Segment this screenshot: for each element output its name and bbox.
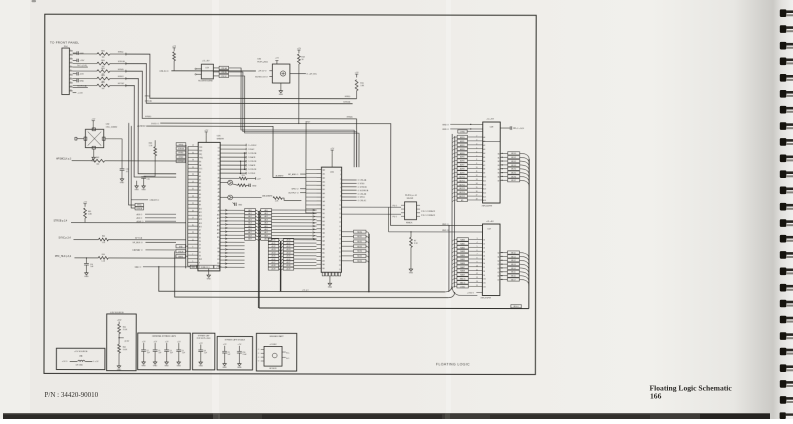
svg-text:AD0: AD0: [265, 209, 268, 212]
U28 inner pin names: [483, 136, 499, 202]
wire DAC branch down to bus: [159, 267, 445, 292]
svg-text:1: 1: [70, 49, 71, 51]
svg-text:12: 12: [339, 213, 341, 215]
svg-text:STROB: STROB: [145, 101, 153, 103]
wire STROB run: [126, 64, 353, 104]
U26 inner pin names: [199, 147, 221, 269]
P64 pin net -15V: [73, 72, 85, 76]
svg-text:ADR1: ADR1: [460, 140, 465, 143]
svg-text:PU O: PU O: [393, 205, 398, 207]
svg-text:100: 100: [96, 164, 99, 166]
svg-text:O DHC: O DHC: [248, 149, 255, 151]
svg-text:D3: D3: [218, 159, 220, 161]
svg-text:15: 15: [192, 225, 194, 227]
svg-text:A.U6: A.U6: [287, 258, 291, 261]
svg-text:A.U4: A.U4: [272, 251, 276, 254]
U26 upper right control nets: [220, 144, 257, 175]
svg-text:EX: EX: [217, 259, 219, 261]
resistor R12 and cap to GND: [233, 184, 257, 188]
svg-text:D3: D3: [483, 251, 485, 253]
wire FPWD run: [126, 71, 357, 167]
svg-text:A.U1: A.U1: [287, 242, 291, 245]
svg-text:MDX6: MDX6: [511, 176, 516, 178]
net GND row with resistor R7: [389, 230, 483, 233]
harness curve into P2: [452, 287, 477, 296]
svg-text:MDL.0: MDL.0: [514, 306, 519, 308]
svg-text:A.U5: A.U5: [272, 255, 276, 258]
svg-text:13: 13: [192, 232, 194, 234]
svg-text:13: 13: [339, 217, 341, 219]
svg-text:AD7: AD7: [248, 231, 251, 234]
svg-text:MAD4: MAD4: [460, 254, 465, 257]
svg-text:7: 7: [192, 254, 193, 256]
svg-text:+CL p.1: +CL p.1: [302, 290, 309, 292]
U31 left feed stubs: [306, 169, 317, 212]
svg-text:CRDHT O: CRDHT O: [150, 200, 160, 202]
svg-text:B7: B7: [498, 180, 500, 182]
svg-text:BLT/B LOG O: BLT/B LOG O: [255, 76, 268, 78]
wire BHLD run to rear connector: [160, 123, 391, 225]
svg-text:MAD5: MAD5: [460, 258, 465, 261]
svg-text:ADR8: ADR8: [460, 167, 465, 170]
svg-text:O DAC8: O DAC8: [248, 156, 256, 159]
svg-text:B6: B6: [498, 177, 500, 179]
svg-text:+15V: +15V: [79, 60, 84, 62]
U26 lower boxed nets GND CRL2E WMBL: [176, 245, 188, 259]
resistor pack RP1: [401, 202, 420, 224]
svg-text:.1uF: .1uF: [182, 353, 185, 355]
svg-text:A.U3: A.U3: [287, 248, 291, 251]
svg-text:D7: D7: [483, 267, 485, 269]
svg-text:AD0: AD0: [248, 209, 251, 212]
svg-text:ADR14: ADR14: [459, 191, 465, 194]
svg-text:BS: BS: [217, 248, 219, 250]
svg-text:RPACK: RPACK: [406, 221, 413, 224]
net BP_AND to U31: [276, 173, 307, 178]
svg-text:D1: D1: [483, 244, 485, 246]
svg-text:E: E: [199, 262, 200, 264]
svg-text:166: 166: [650, 392, 662, 401]
key source box: [56, 348, 105, 369]
svg-text:MDL2: MDL2: [511, 260, 516, 262]
svg-text:FPWD: FPWD: [118, 69, 124, 71]
net BHLD to U27: [391, 224, 483, 226]
U30 output net +5F_R/C: [290, 74, 318, 76]
svg-text:MAD1: MAD1: [460, 242, 465, 245]
svg-text:11: 11: [70, 89, 72, 91]
svg-text:GND: GND: [177, 365, 182, 367]
paper left margin: [0, 0, 30, 419]
svg-text:D2: D2: [199, 248, 201, 250]
svg-text:GND: GND: [222, 367, 227, 369]
U31 left feed bus: [305, 123, 307, 213]
svg-text:GND: GND: [84, 276, 89, 278]
nets N.C. HDAC8 from RP1: [421, 210, 435, 217]
svg-text:AD4: AD4: [248, 222, 251, 225]
power to U26: [204, 130, 208, 143]
svg-text:MDX0: MDX0: [511, 153, 516, 155]
svg-text:FPTST: FPTST: [178, 161, 183, 163]
svg-text:FPWD: FPWD: [178, 153, 184, 155]
svg-text:+1.5V: +1.5V: [77, 92, 83, 94]
wire FPRD run: [126, 54, 357, 99]
svg-text:10: 10: [339, 204, 341, 206]
svg-text:O CRL2K: O CRL2K: [248, 161, 257, 163]
wire STROB long: [71, 221, 186, 223]
svg-text:A.U7: A.U7: [272, 261, 276, 264]
P64 pin net N.CH (5.A): [73, 85, 88, 88]
svg-text:68B09E: 68B09E: [217, 138, 225, 140]
svg-text:D5: D5: [218, 166, 220, 168]
svg-text:MAD2: MAD2: [460, 246, 465, 249]
U26 lower right pin wires: [220, 210, 245, 267]
net DGND boxed: [458, 130, 483, 134]
svg-text:ADR6: ADR6: [460, 160, 465, 163]
svg-text:D2: D2: [483, 247, 485, 249]
svg-text:ADR13: ADR13: [459, 187, 465, 190]
svg-text:37: 37: [192, 145, 194, 147]
svg-text:STROB p.3,4: STROB p.3,4: [54, 221, 68, 223]
svg-text:1B9: 1B9: [322, 205, 325, 207]
svg-text:340-348: 340-348: [407, 198, 414, 200]
svg-text:U27: U27: [488, 229, 491, 231]
nets CRL3A CRL3B CRL3C from U29: [213, 66, 359, 167]
svg-text:O CRL2K: O CRL2K: [248, 169, 257, 171]
svg-text:17: 17: [476, 195, 478, 197]
svg-text:MDX2: MDX2: [511, 161, 516, 163]
svg-text:O CRL8: O CRL8: [248, 173, 256, 175]
svg-text:AD7: AD7: [264, 231, 267, 234]
P64 pin net +1.5V: [73, 92, 84, 94]
svg-text:C10: C10: [242, 352, 245, 354]
resistor R38 with cap to ground: [141, 140, 156, 191]
svg-text:23: 23: [339, 260, 341, 262]
svg-text:74HC374PW: 74HC374PW: [480, 298, 491, 300]
svg-text:AD6: AD6: [248, 228, 251, 231]
svg-text:O +5VDC: O +5VDC: [248, 145, 257, 147]
svg-text:SPIO O: SPIO O: [292, 189, 299, 191]
svg-text:AD9: AD9: [248, 238, 251, 241]
bypass capacitor C8: [198, 343, 207, 368]
svg-text:Q2: Q2: [497, 260, 499, 262]
svg-text:21: 21: [339, 252, 341, 254]
svg-text:14: 14: [476, 183, 478, 185]
svg-text:ALRESV: ALRESV: [137, 125, 146, 128]
svg-text:DAC(GATE): DAC(GATE): [262, 195, 273, 198]
svg-text:O CRL4B: O CRL4B: [358, 194, 367, 196]
P64 pin net +15V: [73, 59, 85, 63]
svg-text:DVLD O: DVLD O: [151, 123, 159, 125]
svg-text:19: 19: [192, 210, 194, 212]
buffer U28: [483, 119, 501, 203]
svg-text:MDL3: MDL3: [511, 264, 516, 266]
svg-text:4B5: 4B5: [322, 229, 325, 231]
svg-text:OUTPUT O: OUTPUT O: [288, 192, 299, 194]
svg-text:MDX7: MDX7: [511, 180, 516, 182]
svg-text:C8: C8: [204, 350, 206, 352]
svg-text:MDX2: MDX2: [357, 241, 362, 243]
unused part box: [256, 333, 296, 371]
svg-text:R42: R42: [96, 157, 99, 159]
U26 left pin numbers: [192, 145, 194, 263]
svg-text:MAD3: MAD3: [460, 250, 465, 253]
svg-text:B0: B0: [498, 153, 500, 155]
capacitor C16: [120, 139, 129, 185]
svg-text:D5: D5: [483, 259, 485, 261]
capacitor to ground under Q2: [233, 202, 243, 206]
svg-text:A.U0: A.U0: [272, 239, 276, 242]
svg-text:10: 10: [476, 167, 478, 169]
svg-text:Q7: Q7: [497, 280, 499, 282]
svg-text:AD4: AD4: [264, 222, 267, 225]
svg-text:BS: BS: [199, 161, 201, 163]
wire DVLD drop: [129, 123, 136, 205]
svg-text:14: 14: [476, 281, 478, 283]
svg-text:6: 6: [70, 69, 71, 71]
svg-text:CRL3A: CRL3A: [221, 67, 228, 70]
right harness vertical: [528, 159, 530, 308]
bypass caps with DAC8 box: [217, 336, 252, 369]
svg-text:.1uF: .1uF: [158, 352, 161, 354]
svg-text:D1: D1: [199, 252, 201, 254]
svg-text:A.U9: A.U9: [272, 267, 276, 270]
svg-text:A15 O: A15 O: [137, 217, 143, 220]
svg-text:O +CV: O +CV: [93, 361, 99, 363]
svg-text:MAD9: MAD9: [460, 274, 465, 277]
svg-text:.1uF: .1uF: [147, 352, 150, 354]
svg-text:MAD11: MAD11: [460, 281, 466, 284]
wire FPTST run: [126, 86, 177, 178]
svg-text:FPRD: FPRD: [145, 96, 151, 98]
U31 left pin stubs: [316, 169, 321, 268]
svg-text:A.U8: A.U8: [287, 264, 291, 267]
svg-text:A.U1: A.U1: [272, 242, 276, 245]
svg-text:MDX4: MDX4: [357, 251, 362, 253]
P64 pin net N.C. (+5.F): [73, 65, 88, 67]
svg-text:R13: R13: [242, 175, 245, 177]
svg-text:GND: GND: [199, 365, 204, 367]
svg-text:15: 15: [339, 226, 341, 228]
svg-text:STROB: STROB: [178, 148, 185, 150]
svg-text:2: 2: [70, 53, 71, 55]
U26 left pin stubs: [188, 147, 198, 267]
svg-text:31: 31: [192, 167, 194, 169]
svg-text:MAD8: MAD8: [460, 270, 465, 273]
U31 inner pin names: [322, 169, 341, 271]
wire +5F_R/C drop: [298, 74, 300, 124]
svg-text:13: 13: [476, 277, 478, 279]
svg-text:HCPL-2601: HCPL-2601: [257, 61, 268, 63]
svg-text:1B5: 1B5: [322, 268, 325, 270]
svg-text:A.U2: A.U2: [272, 245, 276, 248]
svg-text:MDL6: MDL6: [511, 276, 516, 278]
svg-text:ADR7: ADR7: [460, 164, 465, 167]
svg-text:.1uF: .1uF: [90, 266, 93, 268]
svg-text:A.U5: A.U5: [287, 255, 291, 258]
svg-text:GND: GND: [207, 278, 212, 280]
svg-text:3: 3: [70, 57, 71, 59]
svg-text:14: 14: [339, 222, 341, 224]
svg-text:2B9: 2B9: [322, 245, 325, 247]
svg-text:N.C.: N.C.: [286, 358, 290, 360]
svg-text:ADR3: ADR3: [460, 148, 465, 151]
svg-text:Q0: Q0: [497, 253, 499, 255]
ground below U26 area: [208, 280, 210, 282]
svg-text:+5F_IV O: +5F_IV O: [258, 71, 267, 73]
logic IC U31: [321, 167, 341, 272]
svg-text:11: 11: [476, 269, 478, 271]
resistor R13 to +CV: [220, 175, 261, 181]
svg-text:Q3: Q3: [497, 264, 499, 266]
svg-text:B4: B4: [498, 169, 500, 171]
svg-text:D6: D6: [199, 234, 201, 236]
svg-text:MAD10: MAD10: [460, 277, 466, 280]
svg-text:CRL3B: CRL3B: [221, 72, 228, 74]
svg-text:GND: GND: [238, 204, 243, 206]
svg-text:D12: D12: [483, 286, 486, 288]
svg-text:10: 10: [70, 85, 72, 87]
resistor R2 (STROB): [73, 60, 126, 68]
svg-text:O CRL4C: O CRL4C: [358, 200, 367, 202]
svg-text:Q6: Q6: [497, 276, 499, 278]
svg-text:(2.5V: (2.5V: [125, 340, 130, 342]
svg-text:D0: D0: [199, 255, 201, 257]
wire CRL20 to U30 input: [171, 70, 255, 72]
left harness verticals: [452, 134, 455, 290]
svg-text:FPTST: FPTST: [118, 83, 125, 85]
svg-text:D0: D0: [218, 147, 220, 149]
svg-text:D3: D3: [199, 244, 201, 246]
svg-text:DGND: DGND: [460, 131, 466, 133]
svg-text:Q5: Q5: [497, 272, 499, 274]
svg-text:24: 24: [339, 265, 341, 267]
bypass capacitor C2: [141, 341, 150, 367]
svg-text:AD8: AD8: [248, 234, 251, 237]
svg-text:GND: GND: [153, 365, 158, 367]
svg-text:TO FRONT PANEL: TO FRONT PANEL: [50, 41, 79, 45]
svg-text:17: 17: [339, 235, 341, 237]
svg-text:D6: D6: [218, 170, 220, 172]
resistor R40: [73, 236, 185, 245]
svg-text:GND O: GND O: [442, 129, 449, 131]
scan smudge top edge: [32, 0, 37, 2]
svg-text:SYNC p.3,4: SYNC p.3,4: [58, 237, 71, 239]
U28 right output nets MDX: [500, 152, 529, 187]
net DAC/GATE with resistor R15: [233, 195, 302, 203]
svg-text:DAC O: DAC O: [135, 266, 142, 269]
svg-text:MDX5: MDX5: [357, 256, 362, 258]
svg-text:AD5: AD5: [248, 225, 251, 228]
power to U31: [330, 148, 335, 167]
resistor R39: [74, 254, 185, 263]
svg-text:33: 33: [192, 160, 194, 162]
U27 inner pin names: [483, 240, 499, 289]
svg-text:D4: D4: [483, 255, 485, 257]
transistor Q1: [220, 180, 233, 185]
svg-text:VSS: VSS: [199, 147, 202, 149]
svg-text:BYPASS CAP: BYPASS CAP: [198, 334, 210, 337]
MDX bundle vertical: [368, 234, 370, 292]
opto-isolator U30: [257, 58, 290, 86]
svg-text:35: 35: [192, 152, 194, 154]
svg-text:MDX4: MDX4: [511, 169, 516, 171]
svg-text:N.C.: N.C.: [286, 353, 290, 355]
ground below inline parts: [207, 268, 212, 280]
bypass cap for HCPL box: [192, 333, 214, 370]
svg-text:.01: .01: [126, 171, 129, 173]
pull-up resistor R41: [83, 202, 92, 223]
U27 right output nets MDL: [500, 251, 529, 286]
svg-text:1uF: 1uF: [228, 354, 231, 356]
svg-text:AD6: AD6: [264, 228, 267, 231]
svg-text:O SCRROB: O SCRROB: [358, 190, 369, 192]
svg-text:MDX1: MDX1: [511, 157, 516, 159]
svg-text:Q4: Q4: [497, 268, 499, 270]
svg-text:A.U8: A.U8: [272, 264, 276, 267]
svg-text:AD9: AD9: [264, 238, 267, 241]
svg-text:AD3: AD3: [248, 218, 251, 221]
pull-up resistor R17 on CRL20: [172, 46, 177, 71]
svg-text:A.U7: A.U7: [287, 261, 291, 264]
svg-text:ADR0: ADR0: [460, 136, 465, 139]
svg-text:18: 18: [476, 199, 478, 201]
buffer U27: [482, 221, 500, 295]
svg-text:FPRD: FPRD: [179, 144, 184, 146]
address bus ripper lower: [268, 238, 316, 270]
ground below U32: [92, 152, 97, 163]
svg-text:A.U9: A.U9: [287, 267, 291, 270]
svg-text:SP TUE: SP TUE: [135, 238, 143, 240]
svg-text:18: 18: [339, 239, 341, 241]
svg-text:BP_AND O: BP_AND O: [288, 173, 299, 176]
U31 bottom pins: [322, 272, 340, 276]
svg-text:MC1489/DS1489A: MC1489/DS1489A: [198, 79, 213, 82]
svg-text:MAD0: MAD0: [460, 238, 465, 241]
svg-text:A.U4: A.U4: [287, 251, 291, 254]
svg-text:X.PAD 52.1: X.PAD 52.1: [201, 266, 210, 269]
svg-text:DGND: DGND: [460, 286, 466, 288]
svg-text:O CRL4A: O CRL4A: [358, 179, 367, 182]
svg-text:25: 25: [339, 269, 341, 271]
bus vertical upper: [258, 211, 260, 308]
svg-text:GND: GND: [141, 365, 146, 367]
svg-text:19: 19: [339, 243, 341, 245]
svg-text:7: 7: [70, 73, 71, 75]
svg-text:GND: GND: [409, 272, 414, 274]
svg-text:FPINT: FPINT: [178, 157, 183, 159]
svg-text:FPWD: FPWD: [347, 117, 353, 119]
svg-text:8: 8: [70, 77, 71, 79]
general bypass caps box: [138, 333, 191, 370]
svg-text:3B5: 3B5: [322, 189, 325, 191]
svg-text:A.U2: A.U2: [287, 245, 291, 248]
connector P64: [62, 46, 73, 94]
svg-text:MDX1: MDX1: [357, 236, 362, 238]
svg-text:CRL3C: CRL3C: [221, 76, 228, 78]
resistor pack RP1 label: [405, 195, 417, 200]
svg-text:AD2: AD2: [264, 215, 267, 218]
wire ALRESV drop: [131, 126, 135, 208]
svg-text:13: 13: [476, 179, 478, 181]
bypass capacitor C10: [237, 344, 247, 369]
svg-text:PHF_HLD p.3,4: PHF_HLD p.3,4: [55, 256, 72, 258]
svg-text:GND: GND: [279, 94, 284, 96]
svg-text:GND: GND: [79, 80, 84, 82]
svg-text:O S700: O S700: [358, 183, 366, 185]
svg-text:FOR HCPL-2601: FOR HCPL-2601: [197, 338, 211, 340]
svg-text:D4: D4: [199, 241, 201, 243]
node CRDHT: [131, 200, 159, 202]
